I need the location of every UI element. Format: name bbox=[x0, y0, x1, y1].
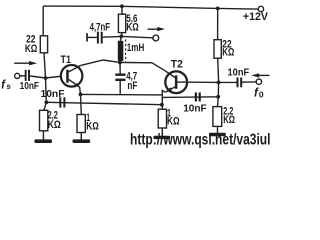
node bias left bbox=[45, 100, 49, 104]
dashed line L1 bbox=[125, 39, 127, 62]
wire top rail bbox=[43, 6, 258, 9]
svg-text:+12V: +12V bbox=[243, 11, 269, 23]
wire base node to f0 bbox=[219, 81, 237, 83]
resistor R3 1K left bbox=[77, 115, 85, 133]
svg-text:KΩ: KΩ bbox=[167, 116, 180, 128]
wire 5.6K to node bbox=[121, 33, 123, 37]
wire node down to 2.2K bbox=[44, 78, 46, 110]
svg-text:KΩ: KΩ bbox=[223, 114, 235, 126]
resistor R1 22K left bbox=[40, 36, 47, 53]
svg-text:KΩ: KΩ bbox=[25, 43, 38, 55]
resistor R4 5.6K bbox=[118, 14, 125, 32]
capacitor C2 10nF lower-left bbox=[59, 97, 61, 107]
svg-text:10nF: 10nF bbox=[41, 88, 66, 100]
svg-text:4,7nF: 4,7nF bbox=[90, 21, 111, 33]
wire base node down bbox=[218, 82, 219, 106]
svg-text:T2: T2 bbox=[171, 59, 183, 71]
wire T1 emitter to 1K bbox=[80, 94, 83, 114]
capacitor C3 4.7nF stub bar bbox=[86, 33, 88, 41]
wire fs to node bbox=[20, 75, 25, 77]
terminal f0 bbox=[256, 79, 261, 84]
transistor T2 bbox=[165, 71, 187, 93]
resistor R7 2.2K right bbox=[213, 107, 222, 127]
capacitor C6 10nF output bbox=[237, 78, 239, 88]
svg-text:s: s bbox=[7, 82, 12, 91]
wire 2.2K to ground bbox=[42, 131, 44, 140]
wire T1 emitter down bbox=[79, 87, 82, 94]
wire left column top bbox=[42, 6, 44, 36]
svg-text:KΩ: KΩ bbox=[86, 121, 99, 133]
wire stub to cap bbox=[87, 36, 97, 38]
wire B bias to T2 emitter bbox=[46, 102, 161, 104]
svg-text:http://www.qsl.net/va3iul: http://www.qsl.net/va3iul bbox=[130, 132, 271, 148]
ground G4 bbox=[209, 133, 226, 136]
capacitor C5 10nF emitter bbox=[195, 92, 197, 101]
svg-text:KΩ: KΩ bbox=[48, 119, 61, 131]
wire cap to tank node bbox=[103, 35, 122, 38]
wire 1K right ground bbox=[161, 128, 163, 136]
wire node to T1 base bbox=[46, 76, 67, 78]
wire 2.2K right ground bbox=[217, 126, 219, 133]
node T1 emitter bbox=[79, 93, 83, 97]
wire 22K right down bbox=[217, 58, 220, 82]
svg-text:10nF: 10nF bbox=[228, 67, 250, 79]
inductor L1 1mH bbox=[119, 36, 122, 40]
svg-text:10nF: 10nF bbox=[183, 102, 207, 114]
wire T2 base to right column bbox=[177, 81, 218, 83]
resistor R5 1K right bbox=[158, 109, 166, 128]
node right column base bbox=[217, 81, 221, 85]
svg-text:1mH: 1mH bbox=[127, 42, 145, 54]
arrow mid out bbox=[148, 28, 159, 30]
wire T2 emitter corner bbox=[162, 91, 165, 110]
ground G1 bbox=[34, 139, 52, 143]
svg-text:KΩ: KΩ bbox=[222, 47, 234, 59]
capacitor C4 4.7nF mid bbox=[119, 63, 121, 74]
svg-text:KΩ: KΩ bbox=[126, 21, 139, 33]
wire rail to 5.6K bbox=[121, 6, 123, 14]
node collector tank bbox=[118, 61, 122, 65]
ground G3 bbox=[153, 136, 170, 139]
terminal mid bbox=[153, 35, 159, 41]
capacitor C1 10nF input bbox=[25, 70, 27, 81]
wire tank node to mid terminal bbox=[121, 36, 153, 37]
resistor R6 22K right bbox=[214, 40, 221, 59]
terminal +12V bbox=[258, 6, 263, 11]
wire C collector link bbox=[81, 60, 165, 71]
arrow f0 out bbox=[258, 74, 270, 76]
wire A emitter link bbox=[81, 93, 163, 96]
node top rail 5.6K bbox=[120, 4, 124, 8]
terminal fs bbox=[15, 73, 20, 78]
node T2 emitter bias bbox=[160, 103, 164, 107]
svg-text:f: f bbox=[1, 80, 6, 92]
svg-text:nF: nF bbox=[127, 80, 137, 92]
node 10nF bias right bbox=[216, 95, 220, 99]
wire 1K to ground bbox=[80, 133, 82, 140]
node base T1 bbox=[44, 76, 48, 80]
wire 10nF right-mid bbox=[162, 96, 217, 99]
transistor T1 bbox=[61, 65, 83, 87]
node top rail right bbox=[216, 6, 220, 10]
arrow input fs bbox=[14, 62, 30, 64]
wire rail to 22K right bbox=[217, 8, 219, 39]
capacitor C3 4.7nF plates bbox=[97, 32, 99, 44]
resistor R2 2.2K left bbox=[40, 110, 48, 131]
node tank top bbox=[119, 35, 123, 39]
ground G2 bbox=[73, 139, 91, 143]
svg-text:T1: T1 bbox=[61, 54, 72, 66]
svg-text:0: 0 bbox=[259, 89, 264, 99]
svg-text:10nF: 10nF bbox=[20, 80, 40, 92]
wire 22K to base node bbox=[44, 53, 46, 78]
